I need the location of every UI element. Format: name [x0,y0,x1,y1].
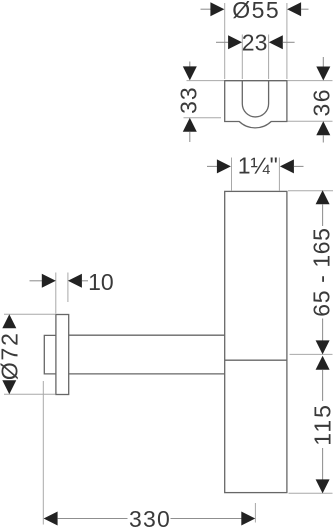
svg-text:115: 115 [310,403,333,446]
svg-text:65 - 165: 65 - 165 [309,227,333,316]
svg-text:330: 330 [129,506,171,528]
svg-text:33: 33 [175,86,201,114]
svg-text:Ø55: Ø55 [232,0,280,23]
svg-text:1¼": 1¼" [238,153,278,179]
svg-text:Ø72: Ø72 [0,331,23,380]
svg-text:10: 10 [88,269,114,295]
svg-text:36: 36 [309,88,333,117]
svg-text:23: 23 [242,29,268,55]
